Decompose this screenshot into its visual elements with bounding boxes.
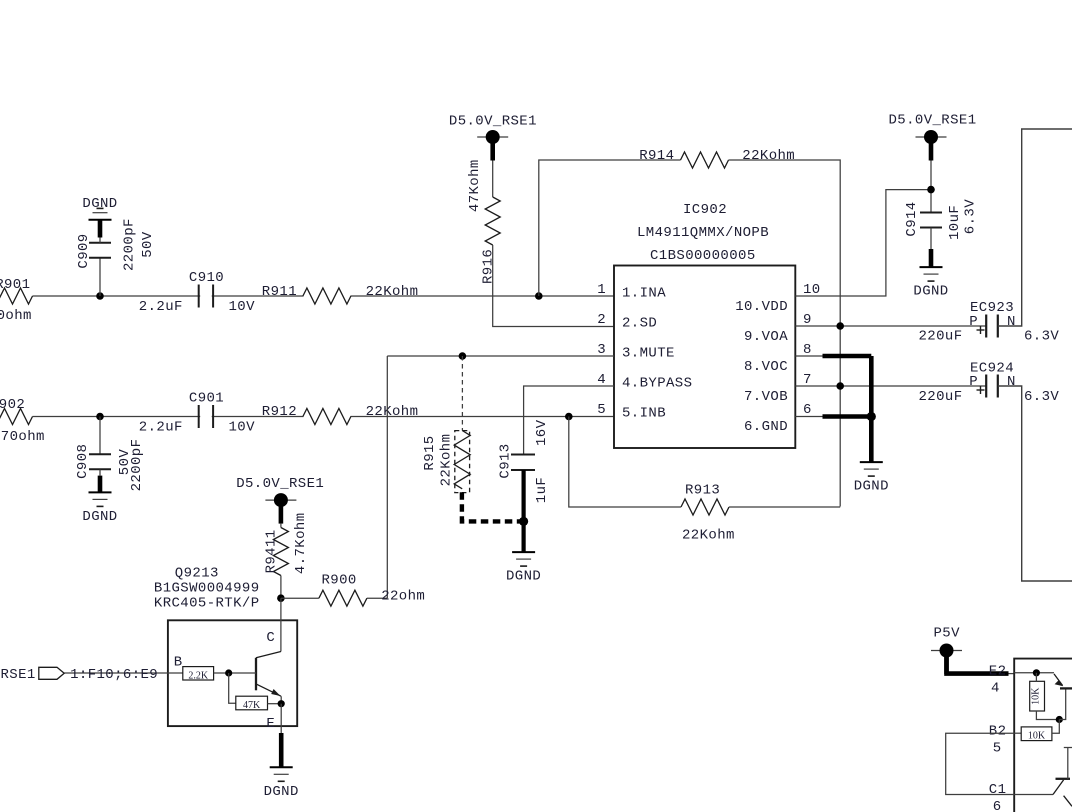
- ground DGND below C908: [89, 491, 112, 493]
- wire: pin 8 VOC thick jumper: [795, 355, 822, 357]
- wire: emitter lead down out of box: [280, 704, 282, 733]
- svg-text:R911: R911: [262, 284, 297, 300]
- svg-text:4: 4: [991, 680, 1000, 696]
- wire: pin 9 VOA to EC923: [795, 325, 986, 327]
- wire: power stub to R9411: [280, 524, 282, 528]
- svg-text:N: N: [1007, 314, 1016, 330]
- wire: R900 right end to mute column: [367, 597, 387, 599]
- svg-text:1uF: 1uF: [534, 477, 550, 503]
- wire: B2 pin line into 10K horizontal: [1014, 732, 1021, 734]
- wire: external loop B2 to C1: [946, 733, 1015, 794]
- transistor Q9213 collector diagonal: [256, 652, 281, 658]
- capacitor C910 (series in rail A): [198, 285, 200, 308]
- svg-text:C901: C901: [189, 391, 224, 407]
- svg-text:22Kohm: 22Kohm: [682, 528, 735, 544]
- wire: EC924 N to off-page bottom-right: [998, 386, 1072, 581]
- wire: R900 net from node to mute column: [281, 597, 319, 599]
- svg-text:7.VOB: 7.VOB: [744, 389, 788, 405]
- svg-text:470ohm: 470ohm: [0, 308, 32, 324]
- svg-text:10uF: 10uF: [947, 205, 963, 240]
- wire: mute column down to R900: [386, 356, 388, 598]
- resistor R914: [681, 152, 729, 168]
- wire: C913 thick lead to ground: [521, 470, 525, 552]
- svg-text:10K: 10K: [1031, 687, 1042, 705]
- capacitor EC924 (polarized): [985, 375, 987, 398]
- svg-text:220uF: 220uF: [919, 389, 963, 405]
- wire: C909 lead down to rail A: [99, 258, 101, 297]
- wire: thick emitter stub to ground: [279, 733, 284, 767]
- ground DGND below pin 6: [860, 461, 883, 463]
- svg-text:R900: R900: [322, 572, 357, 588]
- svg-text:B1GSW0004999: B1GSW0004999: [154, 581, 260, 597]
- svg-text:D5.0V_RSE1: D5.0V_RSE1: [889, 113, 977, 129]
- wire: EC923 N to off-page top-right: [998, 129, 1072, 326]
- svg-text:6.GND: 6.GND: [744, 419, 788, 435]
- svg-text:C914: C914: [904, 201, 920, 236]
- svg-text:R913: R913: [685, 483, 720, 499]
- power symbol D5.0V_RSE1 (above R9411): [265, 499, 296, 501]
- resistor R915 (DNP, dashed box): [454, 431, 470, 489]
- svg-text:2.SD: 2.SD: [622, 316, 657, 332]
- capacitor C901 (series in rail B): [198, 405, 200, 428]
- wire: input net A horizontal rail into pin 1: [33, 295, 615, 297]
- svg-text:5: 5: [993, 740, 1002, 756]
- svg-text:R901: R901: [0, 277, 30, 293]
- svg-text:DGND: DGND: [913, 284, 948, 300]
- wire: R916 down, crossing rail A, to pin 2 (SD): [493, 245, 614, 327]
- junction node VDD/C914: [927, 186, 935, 194]
- junction node 10K/base: [1056, 716, 1063, 723]
- svg-text:DGND: DGND: [82, 196, 117, 212]
- power symbol D5.0V_RSE1 (above R916): [477, 136, 508, 138]
- svg-text:47K: 47K: [243, 700, 261, 711]
- svg-text:DGND: DGND: [854, 479, 889, 495]
- internal resistor 2.2K box: [183, 667, 214, 680]
- capacitor C913: [511, 454, 535, 456]
- transistor (bottom-right) base bar: [1060, 687, 1072, 689]
- wire: pin 7 VOB to EC924: [795, 385, 986, 387]
- svg-text:1: 1: [597, 282, 606, 298]
- svg-text:5.INB: 5.INB: [622, 406, 666, 422]
- svg-text:10K: 10K: [1028, 731, 1046, 742]
- EC924 plus mark: [977, 389, 985, 391]
- internal resistor 10K box (vertical): [1030, 681, 1045, 711]
- ground DGND above C909: [89, 219, 112, 221]
- svg-text:B: B: [174, 654, 183, 670]
- capacitor C909: [89, 242, 111, 244]
- svg-text:9.VOA: 9.VOA: [744, 329, 788, 345]
- svg-text:R902: R902: [0, 397, 25, 413]
- wire: bottom transistor emitter diagonal (clipped): [1064, 796, 1072, 807]
- svg-text:C1BS00000005: C1BS00000005: [650, 248, 756, 264]
- capacitor EC923 (polarized): [985, 315, 987, 338]
- wire: 2.2K to base bar: [214, 672, 256, 674]
- svg-text:2: 2: [597, 312, 606, 328]
- svg-text:N: N: [1007, 374, 1016, 390]
- junction node E2/10K: [1033, 669, 1040, 676]
- svg-text:D5.0V_RSE1: D5.0V_RSE1: [236, 476, 324, 492]
- svg-text:E2: E2: [989, 663, 1007, 679]
- wire: thick stub C908 to ground: [98, 476, 103, 493]
- wire: pin 4 BYPASS across and down to C913: [524, 386, 614, 455]
- svg-text:22Kohm: 22Kohm: [439, 434, 455, 487]
- wire: power stub down to C914 node: [930, 161, 932, 213]
- junction node base/47K: [225, 669, 232, 676]
- EC923 plus mark: [977, 329, 985, 331]
- svg-text:3.MUTE: 3.MUTE: [622, 346, 675, 362]
- junction node pin9/R914: [836, 322, 844, 330]
- svg-text:5: 5: [597, 402, 606, 418]
- resistor R902 (left edge, clipped): [0, 409, 33, 425]
- transistor (bottom) base bar: [1056, 778, 1071, 780]
- svg-text:22ohm: 22ohm: [381, 589, 425, 605]
- svg-text:10V: 10V: [229, 299, 256, 315]
- junction node R9411/R900/collector: [277, 594, 285, 602]
- wire: node up to base: [1059, 690, 1065, 720]
- svg-text:R912: R912: [262, 404, 297, 420]
- svg-text:1.INA: 1.INA: [622, 286, 666, 302]
- svg-text:IC902: IC902: [683, 202, 727, 218]
- svg-text:8.VOC: 8.VOC: [744, 359, 788, 375]
- wire: thick dashed from R915 to C913 ground node: [462, 492, 524, 521]
- svg-text:R915: R915: [422, 435, 438, 470]
- resistor R900: [319, 590, 367, 606]
- svg-text:C909: C909: [76, 233, 92, 268]
- transistor Q9213 emitter diagonal with arrow: [256, 684, 281, 696]
- svg-text:C910: C910: [189, 270, 224, 286]
- svg-text:P5V: P5V: [934, 626, 961, 642]
- wire: C1 pin line and collector diagonal (clipped transistor): [1014, 794, 1053, 796]
- svg-text:P: P: [969, 314, 978, 330]
- svg-text:LM4911QMMX/NOPB: LM4911QMMX/NOPB: [637, 225, 769, 241]
- wire: thick stub C909 to ground: [98, 220, 103, 238]
- wire: down from base node to 47K: [229, 673, 236, 703]
- wire: R914 right over and down to pin 9 node: [729, 160, 841, 507]
- svg-text:1:F10;6:E9: 1:F10;6:E9: [70, 667, 158, 683]
- wire: R9411 to collector node: [280, 576, 282, 599]
- resistor R912: [304, 411, 351, 423]
- IC U1 box IC902: [614, 266, 795, 449]
- junction node (thick) R915/C913 ground: [519, 517, 528, 526]
- junction node MUTE/R915: [459, 352, 467, 360]
- svg-text:RSE1: RSE1: [1, 667, 36, 683]
- junction node pin7/R913-column: [836, 382, 844, 390]
- svg-text:DGND: DGND: [506, 569, 541, 585]
- wire: bottom transistor upper lead: [1067, 748, 1069, 779]
- wire: 47K to emitter node: [268, 703, 282, 705]
- junction node A at C909 tap: [96, 292, 104, 300]
- wire: pin 6 GND thick jumper: [795, 416, 822, 418]
- resistor R901 (left edge, clipped): [0, 288, 33, 304]
- svg-text:C: C: [266, 630, 275, 646]
- svg-text:6.3V: 6.3V: [963, 199, 979, 234]
- svg-text:D5.0V_RSE1: D5.0V_RSE1: [449, 114, 537, 130]
- ground DGND below C913: [512, 551, 535, 553]
- wire: dashed lead from MUTE node to R915: [461, 356, 463, 431]
- transistor Q9213 box: [168, 620, 297, 726]
- internal resistor 10K box (horizontal): [1021, 727, 1052, 741]
- svg-text:16V: 16V: [534, 419, 550, 446]
- svg-text:R914: R914: [639, 148, 674, 164]
- wire: E2 pin line inside box: [1014, 672, 1054, 674]
- wire: pin 10 VDD to C914 node: [795, 190, 931, 296]
- junction node: rail B / R913 tap: [565, 413, 573, 421]
- svg-text:R9411: R9411: [264, 529, 280, 573]
- wire: E2 node down through 10K to lower node: [1035, 673, 1037, 682]
- wire: 10K to base node: [1052, 720, 1059, 734]
- wire: pin 3 MUTE across to mute column: [387, 355, 614, 357]
- svg-text:47Kohm: 47Kohm: [467, 159, 483, 212]
- wire: collector lead into Q9213: [280, 598, 282, 651]
- svg-text:6: 6: [993, 799, 1002, 812]
- wire: C914 to ground, thick stub: [930, 228, 932, 249]
- svg-text:4.BYPASS: 4.BYPASS: [622, 376, 692, 392]
- transistor (bottom-right) emitter diagonal with arrow: [1054, 674, 1063, 686]
- resistor R9411 (vertical): [273, 528, 288, 576]
- svg-text:50V: 50V: [140, 231, 156, 258]
- wire: R913 right end to VOB column: [729, 506, 840, 508]
- svg-text:DGND: DGND: [82, 509, 117, 525]
- svg-text:22Kohm: 22Kohm: [366, 404, 419, 420]
- svg-text:10V: 10V: [229, 420, 256, 436]
- svg-text:2200pF: 2200pF: [129, 439, 145, 492]
- wire: thick vertical VOC to GND net: [869, 356, 874, 462]
- svg-text:C913: C913: [498, 443, 514, 478]
- power symbol P5V: [931, 650, 962, 652]
- svg-text:P: P: [969, 374, 978, 390]
- svg-text:6.3V: 6.3V: [1024, 329, 1059, 345]
- svg-text:22Kohm: 22Kohm: [366, 284, 419, 300]
- svg-text:10.VDD: 10.VDD: [735, 299, 788, 315]
- svg-text:2200pF: 2200pF: [122, 218, 138, 271]
- internal resistor 47K box: [236, 696, 268, 710]
- svg-text:2.2K: 2.2K: [188, 670, 209, 681]
- svg-text:22Kohm: 22Kohm: [742, 148, 795, 164]
- svg-text:KRC405-RTK/P: KRC405-RTK/P: [154, 595, 260, 611]
- resistor R916 (vertical): [485, 197, 500, 245]
- svg-text:C908: C908: [75, 444, 91, 479]
- resistor R911: [304, 290, 351, 302]
- svg-text:2.2uF: 2.2uF: [139, 299, 183, 315]
- svg-text:R916: R916: [481, 249, 497, 284]
- wire: power stub to R916: [492, 161, 494, 198]
- power symbol D5.0V_RSE1 (above C914): [916, 136, 947, 138]
- resistor R913: [681, 499, 729, 515]
- svg-text:B2: B2: [989, 724, 1007, 740]
- junction node emitter: [278, 700, 285, 707]
- wire: R913 feedback from rail B node down and across: [569, 417, 681, 508]
- svg-text:E: E: [266, 716, 275, 732]
- svg-text:220uF: 220uF: [919, 329, 963, 345]
- svg-text:C1: C1: [989, 782, 1007, 798]
- svg-text:470ohm: 470ohm: [0, 429, 45, 445]
- svg-text:6: 6: [803, 402, 812, 418]
- transistor Q9213 base bar: [255, 658, 257, 691]
- junction node pin6/pin8 thick: [867, 412, 876, 421]
- svg-text:2.2uF: 2.2uF: [139, 420, 183, 436]
- svg-text:6.3V: 6.3V: [1024, 389, 1059, 405]
- svg-text:DGND: DGND: [264, 784, 299, 800]
- ground DGND below Q9213: [270, 766, 293, 768]
- IC box bottom-right (clipped): [1014, 659, 1072, 812]
- wire: rail B down to C908: [99, 417, 101, 455]
- wire: input net B horizontal rail into pin 5: [33, 416, 615, 418]
- svg-text:4.7Kohm: 4.7Kohm: [293, 512, 309, 574]
- capacitor C914: [920, 212, 942, 214]
- wire: thick P5V feed to E2: [947, 651, 1009, 674]
- svg-text:Q9213: Q9213: [175, 566, 219, 582]
- wire: base input into Q9213: [64, 672, 183, 674]
- ground DGND below C914: [920, 266, 943, 268]
- capacitor C908: [89, 453, 111, 455]
- junction node: rail A / R914 tap: [535, 292, 543, 300]
- junction node B at C908 tap: [96, 413, 104, 421]
- wire: R914 net from rail A up and across to VOA column: [539, 160, 681, 296]
